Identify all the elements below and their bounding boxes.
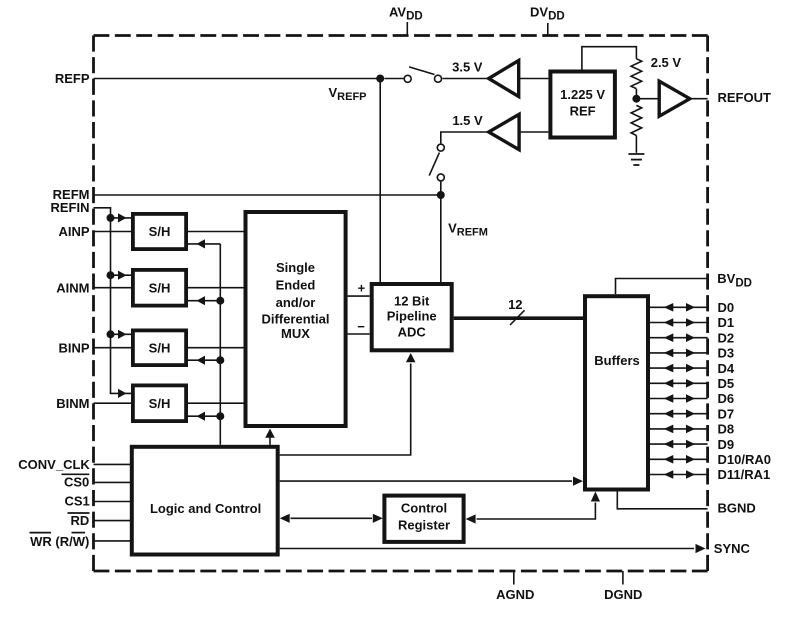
wire feedback tap S/H 1	[188, 243, 220, 245]
junction REFIN rail 1	[107, 214, 115, 222]
wire WR pin to logic	[94, 540, 132, 542]
arrowhead pair D1	[664, 318, 674, 327]
svg-text:S/H: S/H	[149, 280, 171, 295]
block S/H 3	[133, 330, 186, 365]
junction feedback rail 2	[216, 297, 224, 305]
svg-text:1.225 V: 1.225 V	[560, 87, 605, 102]
wire D2	[650, 337, 708, 339]
node VREFP junction	[376, 75, 384, 83]
overline RD	[68, 512, 90, 514]
wire logic to ADC control	[280, 364, 411, 456]
svg-text:WR (R/W): WR (R/W)	[30, 534, 89, 549]
svg-text:and/or: and/or	[276, 295, 316, 310]
resistor R2	[631, 105, 642, 135]
junction REFIN rail 2	[107, 271, 115, 279]
wire D0	[650, 306, 708, 308]
svg-text:REF: REF	[570, 104, 596, 119]
wire net VREFP to ADC	[379, 79, 381, 283]
svg-text:S/H: S/H	[149, 224, 171, 239]
wire feedback tap S/H 4	[188, 415, 220, 417]
wire D11/RA1	[650, 474, 708, 476]
wire RD pin to logic	[94, 520, 132, 522]
bus 12-bit ADC to Buffers	[454, 316, 583, 320]
svg-text:Control: Control	[401, 500, 447, 515]
overline WR	[30, 532, 52, 534]
block S/H 4	[133, 385, 186, 421]
svg-text:REFOUT: REFOUT	[718, 90, 772, 105]
arrowhead into Control Register right	[466, 514, 476, 523]
svg-text:BINP: BINP	[58, 340, 89, 355]
buffer amplifier 3.5V	[489, 61, 519, 97]
svg-text:SYNC: SYNC	[714, 541, 751, 556]
arrowhead into ADC bottom	[406, 353, 416, 362]
svg-text:REFIN: REFIN	[51, 200, 90, 215]
wire logic to control register bus	[291, 517, 373, 519]
svg-text:AINM: AINM	[56, 280, 89, 295]
wire S/H 1 output to MUX	[188, 231, 244, 233]
svg-text:D8: D8	[718, 422, 735, 437]
wire D6	[650, 398, 708, 400]
svg-text:D0: D0	[718, 300, 735, 315]
wire CS0 pin to logic	[94, 481, 132, 483]
arrowhead REFIN into S/H 1	[118, 213, 127, 222]
svg-text:S/H: S/H	[149, 341, 171, 356]
arrowhead pair D4	[664, 364, 674, 373]
node VREFM junction	[437, 191, 445, 199]
svg-text:RD: RD	[71, 513, 90, 528]
wire REFP pin to node	[94, 78, 381, 80]
svg-text:D5: D5	[718, 376, 735, 391]
svg-text:MUX: MUX	[281, 326, 310, 341]
wire SYNC output	[280, 548, 694, 550]
switch S1 3.5V	[404, 67, 441, 82]
wire AINM pin to S/H 2	[94, 287, 132, 289]
arrowhead pair D3	[664, 349, 674, 358]
wire S/H 2 output to MUX	[188, 287, 244, 289]
block S/H 2	[133, 270, 186, 306]
svg-text:D10/RA0: D10/RA0	[718, 452, 771, 467]
wire resistor R1 to node	[636, 89, 659, 99]
arrowhead pair D5	[664, 379, 674, 388]
wire BVDD pin	[616, 279, 708, 295]
wire S/H 4 output to MUX	[188, 402, 244, 404]
block S/H 1	[133, 214, 186, 249]
arrowhead feedback into S/H 4	[197, 412, 206, 421]
wire BINM pin to S/H 4	[94, 402, 132, 404]
block Control Register	[384, 496, 463, 542]
svg-text:D7: D7	[718, 406, 735, 421]
arrowhead REFIN into S/H 3	[118, 330, 127, 339]
svg-text:D4: D4	[718, 361, 735, 376]
wire control register to buffers	[477, 503, 596, 520]
wire D10/RA0	[650, 458, 708, 460]
svg-text:Register: Register	[398, 518, 450, 533]
svg-text:CS0: CS0	[64, 475, 89, 490]
arrowhead pair D2	[664, 333, 674, 342]
wire BGND pin	[617, 492, 707, 509]
overline CS0	[62, 473, 90, 475]
arrowhead pair D9	[664, 440, 674, 449]
svg-text:S/H: S/H	[149, 396, 171, 411]
svg-text:D1: D1	[718, 315, 735, 330]
arrowhead pair D6	[664, 394, 674, 403]
svg-text:D6: D6	[718, 391, 735, 406]
arrowhead into Control Register left	[373, 514, 383, 523]
arrowhead pair D7	[664, 409, 674, 418]
arrowhead feedback into S/H 1	[197, 239, 206, 248]
wire resistor R2 to ground	[635, 135, 637, 152]
wire BINP pin to S/H 3	[94, 347, 132, 349]
wire D9	[650, 443, 708, 445]
arrowhead into Logic right	[280, 514, 290, 523]
wire D4	[650, 367, 708, 369]
block 1.225V REF	[550, 72, 615, 138]
wire REFIN tap to S/H 1	[111, 217, 132, 219]
arrowhead feedback into S/H 2	[197, 296, 206, 305]
wire net VREFM to ADC	[440, 195, 442, 282]
svg-text:1.5 V: 1.5 V	[452, 113, 483, 128]
switch S2 1.5V	[429, 144, 444, 181]
wire feedback tap S/H 3	[188, 359, 220, 361]
wire 3.5V buffer to REF box	[519, 78, 549, 80]
svg-text:12 Bit: 12 Bit	[394, 294, 430, 309]
junction feedback rail 3	[216, 356, 224, 364]
pin tick AGND	[513, 571, 515, 585]
svg-text:D11/RA1: D11/RA1	[718, 467, 771, 482]
wire D3	[650, 352, 708, 354]
svg-text:Logic and Control: Logic and Control	[150, 501, 261, 516]
arrowhead into MUX bottom	[265, 429, 275, 438]
ground	[628, 154, 644, 165]
svg-text:REFP: REFP	[55, 71, 90, 86]
wire MUX minus output to ADC	[348, 333, 370, 335]
wire feedback tap S/H 2	[188, 300, 220, 302]
svg-text:D3: D3	[718, 346, 735, 361]
svg-text:CONV_CLK: CONV_CLK	[18, 457, 90, 472]
wire REFP node to switch S1	[384, 78, 404, 80]
svg-text:3.5 V: 3.5 V	[452, 60, 483, 75]
junction REFIN rail 3	[107, 330, 115, 338]
arrowhead pair D11/RA1	[664, 470, 674, 479]
svg-text:ADC: ADC	[398, 324, 427, 339]
svg-text:Ended: Ended	[276, 278, 316, 293]
wire CS1 pin to logic	[94, 501, 132, 503]
buffer amplifier 1.5V	[489, 114, 519, 149]
wire REFIN tap to S/H 3	[111, 333, 132, 335]
bus width slash	[510, 310, 525, 325]
junction resistor divider node	[632, 95, 640, 103]
wire D7	[650, 413, 708, 415]
svg-text:Single: Single	[276, 260, 315, 275]
wire logic to buffers control	[280, 480, 572, 482]
pin tick DVDD	[547, 23, 549, 36]
junction feedback rail 4	[216, 412, 224, 420]
svg-text:BINM: BINM	[56, 396, 89, 411]
wire D8	[650, 428, 708, 430]
wire REFIN tap to S/H 2	[111, 274, 132, 276]
arrowhead SYNC	[696, 544, 706, 553]
svg-text:CS1: CS1	[65, 494, 90, 509]
wire REFM pin	[94, 194, 441, 196]
svg-text:Pipeline: Pipeline	[387, 309, 437, 324]
wire MUX plus output to ADC	[348, 295, 370, 297]
wire REF box to resistor divider	[582, 47, 637, 70]
arrowhead pair D0	[664, 303, 674, 312]
wire feedback rail to logic	[219, 244, 221, 445]
pin tick AVDD	[406, 22, 408, 36]
wire AINP pin to S/H 1	[94, 231, 132, 233]
arrowhead REFIN into S/H 2	[118, 271, 127, 280]
wire REF box to 1.5V buffer	[519, 131, 548, 133]
svg-text:2.5 V: 2.5 V	[651, 55, 682, 70]
svg-text:+: +	[358, 281, 366, 296]
wire S/H 3 output to MUX	[188, 347, 244, 349]
svg-text:BGND: BGND	[718, 501, 756, 516]
arrowhead pair D10/RA0	[664, 455, 674, 464]
wire logic to MUX control	[269, 438, 271, 445]
svg-text:AGND: AGND	[496, 587, 534, 602]
svg-text:Buffers: Buffers	[594, 353, 640, 368]
svg-text:D9: D9	[718, 437, 735, 452]
pin tick DGND	[622, 571, 624, 585]
arrowhead into Buffers left	[573, 477, 583, 486]
wire D5	[650, 382, 708, 384]
block Logic and Control	[132, 447, 278, 555]
buffer amplifier REFOUT 2.5V	[659, 81, 690, 116]
overline W in R/W	[72, 532, 86, 534]
block Buffers	[585, 296, 648, 489]
block 12-bit pipeline ADC	[372, 284, 452, 350]
wire REFIN pin and rail	[94, 208, 132, 394]
arrowhead pair D8	[664, 425, 674, 434]
arrowhead into Buffers bottom	[591, 492, 600, 502]
arrowhead feedback into S/H 3	[197, 356, 206, 365]
wire CONV_CLK pin to logic	[94, 463, 132, 465]
resistor R1	[631, 59, 642, 89]
arrowhead REFIN into S/H 4	[118, 389, 127, 398]
svg-text:DGND: DGND	[604, 587, 642, 602]
wire D1	[650, 322, 708, 324]
svg-text:D2: D2	[718, 330, 735, 345]
wire 1.5V buffer to switch S2	[441, 132, 489, 143]
wire switch S1 to 3.5V buffer	[443, 78, 489, 80]
svg-text:AINP: AINP	[58, 224, 89, 239]
wire 2.5V buffer to REFOUT pin	[690, 98, 708, 100]
chip boundary dashed border	[94, 36, 708, 572]
svg-text:12: 12	[508, 297, 522, 312]
block MUX	[246, 212, 346, 426]
wire switch S2 to node VREFM	[440, 182, 442, 195]
svg-text:−: −	[357, 319, 365, 334]
svg-text:Differential: Differential	[262, 311, 330, 326]
